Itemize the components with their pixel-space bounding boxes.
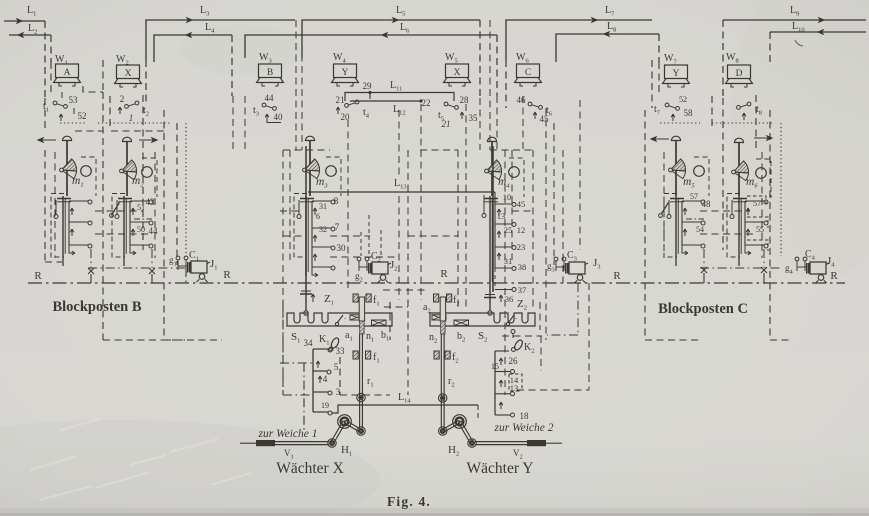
wire L6 drop	[496, 35, 498, 96]
svg-text:21: 21	[442, 119, 451, 129]
relay stack m4	[489, 196, 491, 290]
roller H2 rod	[439, 427, 447, 435]
wire L10	[770, 31, 866, 33]
wire m3 drop	[305, 146, 307, 292]
dashed frame left group	[45, 98, 62, 262]
crank H1	[331, 421, 344, 443]
dashed box S1-K1	[283, 302, 313, 395]
svg-text:6: 6	[316, 212, 320, 221]
wire L12	[350, 100, 421, 102]
junction x4	[761, 267, 767, 273]
wire L6	[245, 35, 497, 58]
svg-text:23: 23	[517, 242, 526, 252]
svg-text:55: 55	[756, 225, 764, 234]
svg-text:58: 58	[684, 108, 694, 118]
bell m4	[487, 137, 496, 141]
slide bar S2	[430, 313, 535, 326]
contact chain K2	[494, 351, 496, 415]
relay J1	[191, 261, 207, 273]
dashed rows center	[280, 211, 370, 236]
dotted drop to C4	[780, 123, 782, 256]
svg-text:5: 5	[334, 362, 339, 372]
svg-text:4: 4	[323, 374, 328, 384]
dashed drop right of J3	[588, 283, 590, 390]
svg-text:.: .	[344, 312, 346, 321]
svg-text:45: 45	[517, 199, 526, 209]
wire L13	[308, 191, 495, 193]
svg-text:54: 54	[696, 225, 704, 234]
bus R	[28, 282, 845, 284]
electromagnet f1 lower	[353, 351, 358, 359]
switch lever m5	[662, 203, 669, 214]
svg-text:19: 19	[321, 401, 329, 410]
junction x2	[149, 268, 155, 274]
armature a2	[440, 297, 445, 321]
svg-text:32: 32	[319, 225, 327, 234]
relay stack m5	[675, 196, 677, 258]
switch lever m2	[113, 203, 120, 214]
svg-text:7: 7	[335, 222, 340, 232]
svg-text:44: 44	[149, 226, 159, 236]
svg-text:Fig. 4.: Fig. 4.	[387, 494, 431, 509]
relay stack m2	[123, 196, 125, 258]
bell m3	[305, 136, 314, 140]
contact t8	[747, 102, 751, 106]
wire L2 drop	[50, 35, 52, 62]
wire m1 to bus	[90, 249, 92, 268]
wire L4	[154, 35, 232, 62]
svg-text:52: 52	[679, 95, 687, 104]
svg-text:28: 28	[460, 95, 470, 105]
wire L5	[302, 20, 480, 58]
dashed box bells C	[664, 152, 762, 258]
svg-text:X: X	[454, 68, 461, 78]
signal arrow left C	[651, 137, 669, 141]
svg-text:.: .	[515, 312, 517, 321]
svg-text:52: 52	[78, 111, 87, 121]
svg-text:15: 15	[491, 362, 499, 371]
svg-text:46: 46	[517, 95, 527, 105]
roller H2 arm	[468, 439, 476, 447]
dashed link stacks B	[88, 268, 186, 283]
wire m5 to bus	[703, 249, 705, 268]
dashed link t1-m1	[62, 92, 168, 131]
svg-text:18: 18	[520, 411, 530, 421]
svg-text:40: 40	[274, 112, 284, 122]
svg-text:34: 34	[304, 338, 314, 348]
svg-text:R: R	[613, 270, 621, 282]
junction x3	[701, 267, 707, 273]
wire L14	[332, 405, 478, 413]
svg-text:26: 26	[509, 356, 519, 366]
electromagnet f1 upper	[353, 294, 358, 302]
dotted drop to C1	[185, 123, 187, 256]
wire L3 drop	[145, 60, 147, 106]
slide bar S1	[287, 313, 392, 326]
svg-text:2: 2	[120, 94, 125, 104]
svg-text:20: 20	[341, 112, 351, 122]
svg-text:31: 31	[319, 202, 327, 211]
svg-text:C: C	[525, 68, 531, 78]
svg-text:43: 43	[146, 197, 156, 207]
relay J3	[569, 262, 585, 274]
svg-text:33: 33	[336, 346, 346, 356]
wire L4 drop	[231, 35, 233, 96]
relay stack m1	[62, 196, 64, 258]
svg-text:B: B	[267, 68, 273, 78]
svg-text:D: D	[736, 69, 743, 79]
svg-text:12: 12	[517, 225, 526, 235]
svg-text:45: 45	[540, 114, 550, 124]
signal arrow left B	[38, 138, 56, 142]
svg-text:zur Weiche 1: zur Weiche 1	[258, 428, 318, 440]
wire L8 drop	[658, 34, 660, 62]
wire m2 to bus	[151, 249, 153, 268]
svg-text:R: R	[440, 268, 448, 280]
wire m6 to bus	[763, 249, 765, 268]
svg-text:30: 30	[337, 243, 347, 253]
svg-text:R: R	[223, 269, 231, 281]
rod r2	[440, 334, 442, 428]
signal arrow right B	[139, 138, 157, 142]
bell m1	[62, 136, 71, 140]
svg-text:8: 8	[334, 196, 339, 206]
bell m2	[122, 137, 131, 141]
contact t3	[262, 103, 266, 107]
wire L1 drop	[44, 21, 46, 98]
svg-text:37: 37	[518, 285, 527, 295]
svg-text:57: 57	[690, 192, 698, 201]
dashed box S2-K2	[502, 336, 542, 371]
electromagnet f2 upper	[434, 294, 439, 302]
svg-text:38: 38	[518, 262, 527, 272]
wire L11	[345, 93, 454, 102]
wire L5 drop	[479, 20, 481, 98]
svg-text:13: 13	[497, 211, 506, 221]
wire L9 drop	[722, 20, 724, 98]
svg-text:53: 53	[69, 95, 79, 105]
bell m6	[734, 138, 743, 142]
contact t5	[444, 102, 448, 106]
svg-text:Blockposten C: Blockposten C	[658, 301, 748, 317]
wire J3 to ground net	[547, 283, 578, 335]
svg-text:Y: Y	[342, 68, 349, 78]
contact t7	[665, 103, 669, 107]
contact t6	[528, 102, 532, 106]
svg-text:57: 57	[753, 199, 761, 208]
relay stack m6	[738, 196, 740, 258]
dashed frame center left	[233, 96, 245, 150]
svg-text:1: 1	[129, 113, 134, 123]
dashed frame right group	[563, 100, 580, 283]
roller H1 arm	[328, 439, 336, 447]
wire L2	[9, 34, 51, 36]
contact t2	[135, 101, 139, 105]
rod r1	[359, 334, 361, 428]
dashed row below bus	[383, 289, 428, 291]
svg-text:22: 22	[422, 98, 431, 108]
svg-text:50: 50	[137, 225, 145, 234]
signal arrow right C	[754, 136, 772, 140]
dashed frame center right	[458, 104, 466, 310]
wire L9	[723, 19, 866, 21]
wire L7	[506, 20, 652, 60]
dashed frame center mid	[348, 110, 399, 300]
wire m4 to Z2	[489, 290, 491, 311]
wire L7 drop	[505, 60, 507, 108]
dashed link stacks C	[700, 267, 781, 269]
electromagnet f2 lower	[434, 351, 439, 359]
wire m4 drop	[492, 146, 494, 292]
svg-text:X: X	[125, 69, 132, 79]
svg-text:A: A	[64, 68, 71, 78]
svg-text:Y: Y	[673, 69, 680, 79]
svg-text:zur Weiche 2: zur Weiche 2	[494, 422, 554, 434]
svg-text:R: R	[830, 270, 838, 282]
dashed box bells B	[55, 152, 155, 258]
roller r1 upper	[357, 393, 365, 401]
wire L3	[146, 20, 295, 60]
wire L8	[556, 34, 659, 62]
crank H2	[458, 422, 471, 444]
wire L10 drop	[769, 32, 771, 62]
roller r2 upper	[439, 394, 447, 402]
contact t1	[53, 101, 57, 105]
svg-text:R: R	[34, 270, 42, 282]
relay J4	[810, 262, 826, 274]
svg-text:44: 44	[265, 93, 275, 103]
svg-text:29: 29	[363, 81, 373, 91]
junction x1	[88, 268, 94, 274]
svg-text:Wächter Y: Wächter Y	[467, 460, 534, 477]
armature a1	[359, 297, 364, 321]
svg-text:Wächter X: Wächter X	[276, 460, 344, 477]
rod to Weiche 1	[275, 441, 329, 443]
rod to Weiche 2	[475, 441, 527, 443]
relay J2	[372, 262, 388, 274]
relay stack m3	[305, 196, 307, 276]
svg-text:36: 36	[505, 294, 514, 304]
wire L14 drop right	[477, 405, 479, 421]
contact t4	[355, 100, 359, 104]
svg-text:Blockposten B: Blockposten B	[52, 299, 141, 315]
svg-text:21: 21	[336, 95, 345, 105]
svg-text:10: 10	[503, 192, 512, 202]
roller H1 rod	[357, 427, 365, 435]
svg-text:48: 48	[702, 199, 712, 209]
bell m5	[671, 136, 680, 140]
wire L1	[4, 20, 45, 22]
svg-text:35: 35	[469, 113, 479, 123]
